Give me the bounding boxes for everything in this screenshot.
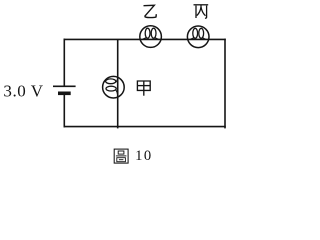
label 乙 (above lamp 乙): [144, 5, 157, 17]
svg-text:10: 10: [135, 148, 153, 164]
lamp 甲 (middle branch): [103, 76, 125, 98]
wire: top conductor: [64, 38, 226, 40]
label 丙 (above lamp 丙): [194, 5, 209, 18]
wire: left conductor upper segment: [63, 39, 65, 87]
wire: right conductor: [224, 39, 226, 129]
battery B1 positive plate (long): [53, 85, 76, 87]
wire: middle branch: [117, 39, 119, 128]
caption 圖 (figure): [114, 149, 128, 163]
lamp 乙 (top wire, left): [140, 26, 162, 48]
label 甲 (right of lamp 甲): [137, 81, 150, 96]
wire: left conductor lower segment: [63, 94, 65, 127]
lamp 丙 (top wire, right): [187, 26, 209, 48]
wire: bottom conductor: [64, 126, 226, 128]
battery B1 negative plate (short thick): [58, 92, 71, 96]
svg-text:3.0 V: 3.0 V: [3, 81, 43, 100]
